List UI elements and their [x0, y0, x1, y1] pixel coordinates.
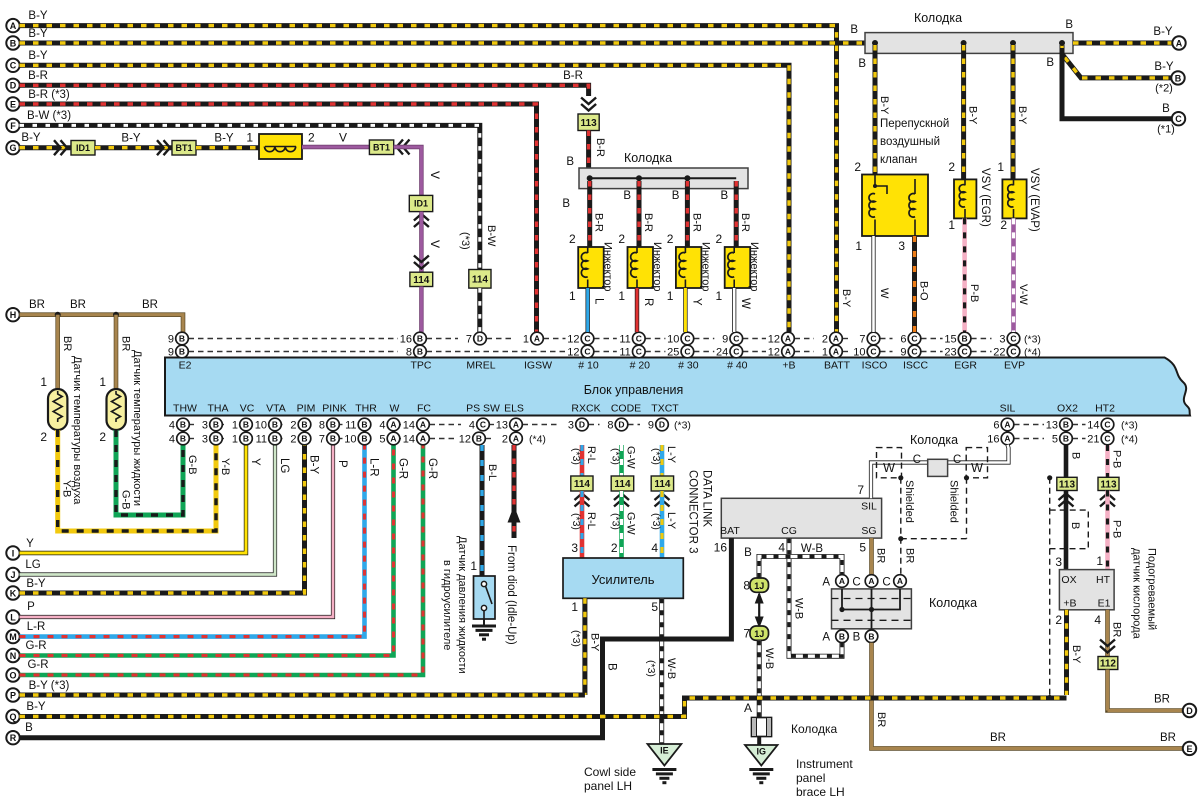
data link connector 3 box — [721, 498, 881, 538]
svg-text:C: C — [1010, 334, 1016, 344]
label P-B vert egr — [968, 284, 980, 302]
svg-text:B: B — [330, 434, 336, 444]
svg-text:2: 2 — [1055, 613, 1062, 627]
wire B-Y row B to connector bar — [20, 41, 867, 46]
wire W-B fuse to IG — [757, 737, 761, 746]
wire V 114 to TPC — [419, 287, 423, 333]
node L (left connector L) — [6, 610, 19, 623]
svg-text:LG: LG — [25, 559, 40, 571]
shield dashed B box — [1050, 510, 1089, 549]
ECU bottom-right pin row 1 — [993, 418, 1113, 431]
svg-text:113: 113 — [1059, 480, 1076, 491]
svg-text:G-R: G-R — [25, 640, 46, 652]
label B-Y vert egr col — [967, 106, 979, 125]
label pin2 injector 1 — [569, 232, 576, 246]
label B-R vert inj2 — [642, 213, 654, 232]
svg-text:112: 112 — [1100, 659, 1117, 670]
label B-R row D mid — [563, 70, 583, 82]
svg-text:в гидроусилителе: в гидроусилителе — [441, 560, 453, 650]
svg-text:7: 7 — [857, 483, 864, 497]
node I (left connector I) — [6, 546, 19, 559]
label B-Y row B — [28, 28, 48, 40]
svg-text:W: W — [739, 298, 751, 309]
arrow into ID1 — [54, 140, 67, 155]
noise filter coil (G row) — [259, 134, 302, 159]
wire W injector 4 to ECU — [732, 288, 736, 332]
svg-text:(*3): (*3) — [1121, 420, 1138, 432]
svg-text:CONNECTOR 3: CONNECTOR 3 — [687, 470, 699, 554]
arrow into BT1-2 — [397, 140, 410, 155]
svg-text:VC: VC — [240, 403, 255, 415]
svg-text:BR: BR — [29, 299, 45, 311]
node A (left connector A) — [6, 19, 19, 32]
svg-text:# 30: # 30 — [678, 360, 699, 372]
label BR H1 — [70, 299, 86, 311]
wire V-W VSV EVAP to EVP pin — [1011, 218, 1016, 332]
label pin2 bypass valve — [854, 160, 861, 174]
node pin A3 kolodka3 — [894, 575, 907, 588]
svg-text:# 20: # 20 — [630, 360, 651, 372]
svg-text:B-R (*3): B-R (*3) — [28, 89, 70, 101]
svg-text:1J: 1J — [754, 629, 764, 639]
svg-text:D: D — [1186, 706, 1193, 716]
wire B-W 114 to MREL — [477, 288, 482, 332]
svg-text:W: W — [390, 403, 400, 415]
svg-text:I: I — [12, 548, 15, 558]
label B-R (*3) row E — [28, 89, 70, 101]
arrow into 112 — [1100, 640, 1115, 653]
label W-B vert ig — [763, 648, 775, 669]
svg-text:Инжектор: Инжектор — [699, 242, 711, 292]
svg-text:11: 11 — [345, 420, 356, 432]
label L-Y lower — [665, 512, 677, 530]
svg-text:N: N — [10, 651, 17, 661]
arrow into ID1-2 — [414, 214, 429, 227]
svg-text:V-W: V-W — [1017, 284, 1029, 305]
wire BR row H to E2 — [20, 315, 184, 333]
label ECU — [584, 383, 684, 397]
label BR vert e — [875, 712, 887, 727]
svg-text:B: B — [272, 420, 278, 430]
svg-text:+B: +B — [782, 360, 795, 372]
svg-text:B: B — [243, 420, 249, 430]
label B above bar1 — [566, 156, 574, 168]
wire W-B CG branch — [789, 538, 842, 656]
svg-text:C: C — [1104, 420, 1110, 430]
svg-text:R: R — [642, 298, 654, 306]
wire R-L upper segment col R-L — [580, 445, 585, 476]
svg-text:22: 22 — [993, 347, 1005, 359]
label (*4) after HT2 row2 — [1121, 434, 1138, 446]
label W-B wb — [665, 658, 677, 679]
svg-text:IE: IE — [660, 746, 669, 756]
svg-text:(*4): (*4) — [529, 434, 546, 446]
fuse A (Колодка) — [752, 718, 772, 737]
wire B OX2 to 113 — [1064, 445, 1069, 477]
connector code BT1 second (G row) — [369, 140, 393, 155]
svg-text:P-B: P-B — [1111, 520, 1123, 538]
svg-text:W: W — [878, 288, 890, 299]
label pin1 VSV EVAP — [997, 160, 1004, 174]
node Q (left connector Q) — [6, 710, 19, 723]
wire V coil to BT1-2 — [302, 145, 370, 149]
label Instrument panel brace LH — [796, 757, 853, 799]
svg-text:Y-B: Y-B — [219, 458, 231, 475]
label (*2) right B — [1155, 83, 1173, 95]
svg-text:C: C — [911, 334, 917, 344]
svg-text:C: C — [636, 347, 642, 357]
svg-text:3: 3 — [571, 541, 578, 555]
label LG row J — [25, 559, 40, 571]
svg-text:B: B — [25, 722, 33, 734]
label water temp sensor (vertical) — [131, 350, 143, 506]
svg-text:8: 8 — [406, 347, 412, 359]
bus B-Y (*3) row P to amplifier — [20, 693, 585, 698]
svg-text:11: 11 — [256, 434, 267, 446]
svg-text:A: A — [420, 420, 426, 430]
ECU bottom pin name labels — [173, 403, 1115, 415]
bypass air valve (Перепускной воздушный клапан) — [862, 175, 928, 237]
wire B-R row E to IGSW — [20, 104, 537, 332]
label Injector vert 4 — [748, 242, 760, 292]
wire L-Y upper segment col L-Y — [660, 445, 665, 476]
label B above bar2 right — [1065, 19, 1073, 31]
label Kolodka shielded — [910, 433, 958, 447]
label B inj3 — [672, 190, 680, 202]
connector code 114 (MREL) — [469, 270, 491, 289]
svg-text:B-Y: B-Y — [26, 578, 46, 590]
svg-text:B-Y (*3): B-Y (*3) — [29, 680, 70, 692]
label V vert 1 — [428, 171, 442, 179]
svg-text:B: B — [858, 58, 866, 70]
label B-Y vert evap col — [1016, 106, 1028, 125]
arrow between 1J relays — [755, 592, 764, 628]
svg-text:B: B — [1162, 103, 1170, 115]
svg-text:1: 1 — [948, 218, 955, 232]
relay 1J upper — [750, 578, 769, 592]
svg-text:VSV (EVAP): VSV (EVAP) — [1028, 168, 1040, 232]
label pin2 VSV EGR — [948, 160, 955, 174]
label pin1 sensor2 — [99, 375, 106, 389]
label B right C — [1162, 103, 1170, 115]
node J (left connector J) — [6, 568, 19, 581]
label pin1 injector 3 — [667, 289, 674, 303]
svg-text:Колодка: Колодка — [914, 11, 962, 25]
svg-text:4: 4 — [169, 434, 175, 446]
svg-text:4: 4 — [379, 420, 385, 432]
svg-text:B-Y: B-Y — [1016, 106, 1028, 125]
wire L-Y lower segment — [660, 491, 665, 558]
svg-text:THW: THW — [173, 403, 197, 415]
label B-Y vert riser — [308, 455, 320, 475]
svg-text:5: 5 — [651, 600, 658, 614]
svg-text:A: A — [390, 420, 396, 430]
label 4 E1 — [1094, 613, 1101, 627]
svg-text:A: A — [1004, 420, 1010, 430]
svg-text:ISCO: ISCO — [862, 360, 888, 372]
label (*3) top right — [1024, 334, 1041, 346]
arrow into 114 G-W — [614, 494, 629, 507]
svg-text:B-Y: B-Y — [878, 96, 890, 115]
label HT — [1096, 574, 1111, 586]
svg-text:Y: Y — [249, 458, 261, 466]
svg-text:11: 11 — [619, 347, 630, 359]
O2 sensor connector box — [1059, 570, 1114, 610]
node F (left connector F) — [6, 119, 19, 132]
node O (left connector O) — [6, 668, 19, 681]
svg-text:BR: BR — [142, 299, 158, 311]
connector block Kolodka3 — [832, 589, 912, 629]
wire V to TPC corner — [394, 147, 422, 195]
wire B-Y bar2 to A right — [1073, 41, 1172, 46]
node A right — [1172, 36, 1185, 49]
label Y vert riser — [249, 458, 261, 466]
svg-text:B-Y: B-Y — [28, 50, 48, 62]
svg-text:B-R: B-R — [739, 213, 751, 232]
label B-Y vert BATT column — [840, 289, 852, 308]
label BR row E right — [1160, 732, 1176, 744]
svg-text:16: 16 — [714, 541, 728, 555]
label pin1 injector 4 — [716, 289, 723, 303]
svg-text:3: 3 — [999, 334, 1005, 346]
wire P-B 113 to HT pin — [1105, 491, 1110, 570]
svg-text:B: B — [243, 434, 249, 444]
label BR dashed drain — [904, 548, 916, 563]
svg-text:2: 2 — [1000, 218, 1007, 232]
label 16 BAT — [714, 541, 728, 555]
label Y-B vert s1 — [61, 480, 73, 497]
svg-text:(*3): (*3) — [610, 513, 622, 530]
svg-text:B: B — [10, 38, 17, 48]
svg-text:B-R: B-R — [642, 213, 654, 232]
svg-text:C: C — [733, 334, 739, 344]
wire B-R row D to code 113 — [20, 85, 589, 96]
node K (left connector K) — [6, 586, 19, 599]
svg-text:BR: BR — [875, 712, 887, 727]
svg-text:G-B: G-B — [120, 490, 132, 510]
label L-R vert riser — [368, 458, 380, 477]
svg-text:C: C — [1104, 434, 1110, 444]
svg-text:B: B — [850, 24, 858, 36]
svg-text:Инжектор: Инжектор — [602, 242, 614, 292]
wire B-R bar to injector 2 — [637, 181, 642, 247]
svg-text:14: 14 — [403, 420, 415, 432]
svg-text:E: E — [10, 99, 16, 109]
svg-text:C: C — [684, 334, 690, 344]
label BR sg wire — [875, 548, 887, 563]
svg-text:114: 114 — [472, 274, 489, 285]
label pin1 pressure switch — [470, 559, 477, 573]
wire V to 114 — [419, 212, 423, 273]
svg-text:10: 10 — [255, 420, 267, 432]
wire Y row I to VC — [20, 445, 247, 554]
svg-text:23: 23 — [944, 347, 956, 359]
svg-text:G-R: G-R — [397, 458, 409, 479]
svg-text:1: 1 — [716, 289, 723, 303]
label B-Y G mid2 — [214, 133, 234, 145]
label B-R vert above bar — [594, 138, 606, 157]
svg-text:(*4): (*4) — [1121, 434, 1138, 446]
wire R injector 2 to ECU — [635, 288, 639, 332]
label L-R row M — [27, 621, 46, 633]
svg-text:C: C — [636, 334, 642, 344]
svg-text:8: 8 — [607, 420, 613, 432]
node C right — [1172, 112, 1185, 125]
shield dashed line right — [1047, 475, 1052, 700]
svg-text:A: A — [390, 434, 396, 444]
wire G-R row N to W pin — [20, 445, 394, 656]
svg-text:IGSW: IGSW — [524, 360, 552, 372]
svg-text:P: P — [10, 690, 16, 700]
ECU bottom pin row 2 — [169, 432, 522, 445]
svg-text:B: B — [562, 198, 570, 210]
arrow into 114 R-L — [575, 494, 590, 507]
svg-text:7: 7 — [319, 434, 325, 446]
svg-text:B: B — [623, 190, 631, 202]
label bypass air valve — [880, 118, 949, 166]
node pin A2 kolodka3 — [865, 575, 878, 588]
label G-W lower — [625, 512, 637, 535]
svg-text:(*3): (*3) — [570, 448, 582, 465]
svg-text:W-B: W-B — [793, 598, 805, 619]
svg-text:brace LH: brace LH — [796, 785, 845, 799]
label B vert mid — [606, 663, 618, 671]
svg-text:A: A — [513, 420, 519, 430]
label SIL dl — [861, 501, 877, 513]
svg-text:B-Y: B-Y — [214, 133, 234, 145]
label L-Y upper — [665, 446, 677, 464]
ground IG bars — [749, 770, 773, 783]
label pin3 bypass valve — [898, 239, 905, 253]
label B below bar1 — [562, 198, 570, 210]
svg-text:Instrument: Instrument — [796, 757, 853, 771]
label O2 sensor vertical — [1131, 548, 1158, 640]
wire BR to water temp sensor — [114, 315, 119, 389]
label V vert 2 — [428, 240, 442, 248]
svg-text:25: 25 — [667, 347, 679, 359]
svg-text:ISCC: ISCC — [903, 360, 929, 372]
label Injector vert 3 — [699, 242, 711, 292]
wire P-B HT2 to 113 — [1105, 445, 1110, 477]
ground pressure switch — [472, 619, 496, 639]
wire B-Y O2 +B from Q bus — [1064, 610, 1069, 695]
injector 1 (Инжектор) — [578, 247, 604, 288]
svg-text:W: W — [883, 461, 895, 475]
wire B-W row F to 114 — [20, 125, 480, 269]
svg-text:B-R: B-R — [563, 70, 583, 82]
svg-text:# 10: # 10 — [578, 360, 599, 372]
svg-text:2: 2 — [716, 232, 723, 246]
svg-text:E1: E1 — [1098, 598, 1111, 610]
svg-text:2: 2 — [290, 420, 296, 432]
label pin1 amplifier — [571, 600, 578, 614]
label B-Y row K — [26, 578, 46, 590]
svg-text:13: 13 — [496, 420, 508, 432]
svg-text:LG: LG — [278, 458, 290, 473]
svg-text:C: C — [584, 334, 590, 344]
wire B-Y bar2 to VSV EVAP — [1011, 45, 1016, 179]
label A top — [822, 577, 830, 589]
node pin A1 kolodka3 — [836, 575, 849, 588]
svg-text:4: 4 — [469, 420, 475, 432]
svg-text:(*3): (*3) — [674, 420, 691, 432]
relay 1J lower — [750, 626, 769, 640]
node D (left connector D) — [6, 79, 19, 92]
label (*4) after ELS — [529, 434, 546, 446]
node B right — [1171, 71, 1184, 84]
svg-text:114: 114 — [574, 479, 591, 490]
svg-text:W-B: W-B — [801, 543, 823, 555]
svg-text:L-R: L-R — [27, 621, 46, 633]
svg-text:B-Y: B-Y — [1070, 645, 1082, 664]
svg-text:C: C — [733, 347, 739, 357]
svg-text:Y: Y — [690, 298, 702, 306]
label G-R row N — [25, 640, 46, 652]
label B-W vert MREL col — [485, 225, 497, 247]
svg-text:A: A — [744, 701, 752, 715]
svg-text:C: C — [913, 454, 921, 466]
wire B-O bypass valve to ISCC — [912, 236, 917, 332]
node P (left connector P) — [6, 688, 19, 701]
svg-text:BR: BR — [1160, 732, 1176, 744]
svg-text:B: B — [476, 434, 482, 444]
svg-text:12: 12 — [567, 347, 579, 359]
wire P-B VSV EGR to EGR pin — [962, 218, 967, 332]
svg-text:ID1: ID1 — [414, 199, 428, 209]
svg-text:2: 2 — [40, 430, 47, 444]
svg-text:Перепускной: Перепускной — [880, 118, 949, 130]
label (*3) wb — [645, 660, 657, 677]
svg-text:B: B — [179, 347, 185, 357]
svg-text:B: B — [417, 334, 423, 344]
svg-text:Инжектор: Инжектор — [651, 242, 663, 292]
svg-text:114: 114 — [614, 479, 631, 490]
svg-text:(*3): (*3) — [570, 630, 582, 647]
svg-text:K: K — [10, 588, 17, 598]
wire B-Y row K to PIM — [20, 445, 305, 594]
svg-text:BR: BR — [990, 732, 1006, 744]
svg-text:3: 3 — [202, 434, 208, 446]
wire B-L PS SW to pressure switch — [480, 445, 485, 576]
node C (left connector C) — [6, 59, 19, 72]
svg-text:P-B: P-B — [968, 284, 980, 302]
svg-text:H: H — [10, 310, 17, 320]
svg-text:B-R: B-R — [28, 70, 48, 82]
wire G-B sensor2 to THW — [116, 430, 183, 515]
svg-text:B-Y: B-Y — [1154, 61, 1174, 73]
svg-text:BR: BR — [875, 548, 887, 563]
svg-text:SIL: SIL — [861, 501, 877, 513]
wire Y injector 3 to ECU — [683, 288, 687, 332]
svg-text:BR: BR — [1111, 622, 1123, 637]
svg-text:D: D — [477, 334, 483, 344]
label Shielded left — [903, 480, 915, 523]
svg-text:A: A — [897, 576, 903, 586]
connector code 114 (TPC col) — [410, 272, 433, 286]
svg-text:P: P — [336, 460, 348, 468]
svg-text:ID1: ID1 — [76, 143, 90, 153]
svg-text:1: 1 — [232, 434, 238, 446]
svg-text:FC: FC — [417, 403, 431, 415]
label +B — [1063, 598, 1076, 610]
arrow into 113 (D row) — [581, 98, 596, 111]
svg-text:B: B — [721, 190, 729, 202]
label 1 HT — [1096, 554, 1103, 568]
svg-text:Y-B: Y-B — [61, 480, 73, 497]
svg-text:9: 9 — [900, 347, 906, 359]
label B below-left bar2 — [858, 58, 866, 70]
label V G row — [339, 131, 347, 145]
